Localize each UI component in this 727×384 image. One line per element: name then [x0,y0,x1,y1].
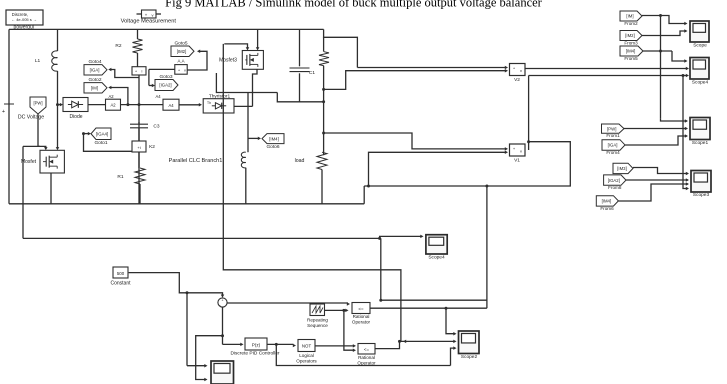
inductor L1 [35,29,58,148]
wire V1 input2 [369,151,509,186]
svg-text:L1: L1 [35,58,41,64]
wire relop1 to scope [446,308,457,335]
goto tag Goto3 [149,69,178,90]
svg-text:Rational: Rational [358,355,375,360]
goto tag Goto4 [84,59,139,78]
wire loop down [485,185,488,309]
svg-text:K2: K2 [149,144,155,150]
resistor R3 [319,29,357,67]
svg-text:Logical: Logical [299,353,314,358]
svg-text:Operators: Operators [296,359,317,364]
wire to thyristor [179,103,202,107]
wire V1 branch to scope3 [683,76,689,191]
from tag From4 [602,134,688,155]
svg-text:load: load [295,158,305,164]
from tag From5 [620,46,672,61]
svg-text:From2: From2 [624,21,638,26]
voltage measurement V1 [510,144,526,164]
from tag From1 [602,124,689,138]
wire pwm feedback [379,238,487,301]
svg-text:500: 500 [117,271,125,276]
svg-text:[PW]: [PW] [607,126,616,131]
svg-text:Mosfet3: Mosfet3 [219,57,237,63]
wire V1 to scopes [529,74,689,78]
svg-text:[IM4]: [IM4] [602,199,612,204]
svg-text:[PW]: [PW] [33,100,42,105]
svg-text:From5: From5 [624,56,638,61]
svg-text:[IM]: [IM] [626,14,633,19]
wire diode chain [121,103,164,106]
svg-text:Fig 9 MATLAB / Simulink model: Fig 9 MATLAB / Simulink model of buck mu… [165,0,543,10]
wire relop2 output [375,340,457,349]
sum junction [218,298,227,308]
svg-text:From1: From1 [606,133,620,138]
wire NOT output [315,344,356,348]
wire sum branch to scope [196,334,224,381]
svg-text:[IM4]: [IM4] [626,49,636,54]
voltage measurement block VM2 [149,58,187,74]
svg-text:← 4e-005 s →: ← 4e-005 s → [11,17,37,22]
wire to scope1 input1 [661,119,689,123]
svg-text:A4: A4 [155,94,161,99]
svg-text:[IGA]: [IGA] [90,68,100,73]
svg-text:[IGA2]: [IGA2] [608,178,620,183]
repeating sequence [307,304,328,328]
logical operator NOT [296,340,317,364]
gain A4 [155,94,179,110]
wire repseq output [325,309,349,313]
wire mosfet3 drain [256,29,260,50]
svg-text:v: v [152,13,154,18]
svg-text:A2: A2 [110,102,116,107]
svg-text:C3: C3 [153,124,159,130]
wire left bus [8,29,10,203]
svg-text:Voltage Measurement: Voltage Measurement [121,19,177,25]
diode D1 [56,98,88,120]
svg-text:Operator: Operator [357,361,376,366]
svg-text:[IM]: [IM] [91,86,98,91]
svg-text:Diode: Diode [69,114,82,120]
svg-text:Goto1: Goto1 [94,140,107,146]
svg-text:Th: Th [207,101,211,105]
from tag PW (gate) [30,97,48,150]
wire mosfet3 source [253,69,258,106]
wire top bus [9,28,324,30]
scope Scope4a [690,58,709,86]
scope Scope [690,21,709,48]
gain A2 [88,94,121,110]
svg-text:Constant: Constant [110,280,131,286]
scope Scope5 [426,235,447,261]
svg-text:Scope3: Scope3 [693,192,710,198]
from tag From7 [613,163,689,175]
wire V2 inputs [324,66,508,90]
wire switch node [216,73,323,106]
svg-text:NOT: NOT [302,344,312,349]
svg-text:[IM3]: [IM3] [617,166,627,171]
svg-text:Sequence: Sequence [307,323,328,328]
wire R3 bottom [322,66,325,155]
capacitor C3 [130,122,160,141]
svg-text:[IM4]: [IM4] [269,136,279,141]
svg-text:A.A: A.A [177,58,184,63]
from tag From8 [604,175,689,190]
svg-text:+: + [2,109,5,115]
wire PID output [267,343,296,347]
svg-text:From6: From6 [600,206,614,211]
svg-text:Scope2: Scope2 [461,354,478,360]
scope Scope3 [691,171,711,198]
resistor R2 [115,29,142,53]
wire repseq branch [344,310,356,352]
title text [165,0,543,10]
goto tag Goto5 [171,41,207,71]
mosfet Q1 [21,150,64,173]
svg-text:−: − [219,304,221,308]
svg-text:[IGA4]: [IGA4] [96,131,108,136]
svg-text:Discrete PID Controller: Discrete PID Controller [230,351,279,357]
wire V2 output [525,67,689,71]
svg-text:Scope1: Scope1 [692,140,709,146]
capacitor C1 [290,29,316,101]
scope Scope2 [459,331,480,360]
from tag From2 [620,11,688,26]
svg-text:[IM2]: [IM2] [625,33,635,38]
goto tag Goto2 [84,77,128,105]
svg-text:V2: V2 [514,77,520,83]
wire to scope5 [378,235,423,240]
svg-text:Goto4: Goto4 [88,59,101,65]
svg-text:Goto2: Goto2 [88,77,101,83]
svg-text:Scope: Scope [693,42,707,48]
wire sum bottom to PID [223,307,244,346]
svg-text:C1: C1 [309,70,315,76]
relational operator 1 [352,303,371,325]
wire ground bus [9,203,364,205]
scope Scope1 [690,118,710,146]
svg-text:Rational: Rational [353,314,370,319]
relational operator 2 [357,344,376,366]
svg-text:v: v [520,68,522,73]
svg-text:Parallel CLC Branch1: Parallel CLC Branch1 [169,158,223,164]
wire V1 loop [364,142,570,204]
svg-text:A2: A2 [108,94,114,99]
svg-text:Operator: Operator [352,320,371,325]
svg-text:[IGA]: [IGA] [608,143,618,148]
parallel CLC branch inductor [169,93,248,204]
svg-text:From3: From3 [624,40,638,45]
svg-text:From4: From4 [606,150,620,155]
wire bottom bus up [451,346,457,365]
wire V1 output [527,76,530,151]
powergui block [6,10,43,30]
wire long feedback [23,237,381,239]
scope Scope6 [211,361,234,384]
wire mosfet source [50,173,52,204]
resistor load [295,152,327,204]
svg-text:+i: +i [137,145,140,150]
wire constant to sum [129,273,225,298]
svg-text:Scope4: Scope4 [692,79,709,85]
DC voltage source [2,104,44,121]
svg-text:A4: A4 [168,103,174,108]
from tag From3 [620,29,688,45]
current measurement I1 [132,53,146,204]
wire L1 to Mosfet [56,147,60,150]
measurement block K2 [132,141,155,168]
wire mosfet3 gate [224,44,249,51]
voltage measurement block VM [121,10,177,25]
wire V1 input1 [322,132,508,151]
from tag From6 [596,182,689,211]
resistor R1 [117,168,145,204]
wire mosfet bypass [23,146,40,238]
thyristor block [203,93,234,113]
svg-text:Scope4: Scope4 [428,255,445,261]
wire from5 down [661,16,688,119]
svg-text:DC Voltage: DC Voltage [18,115,44,121]
svg-text:v: v [520,149,522,154]
svg-text:V1: V1 [514,158,520,164]
wire relop1 output [370,307,487,310]
mosfet Q3 [219,51,263,70]
svg-text:Goto3: Goto3 [159,74,172,80]
svg-text:Repeating: Repeating [307,317,328,322]
wire PID branch down [276,344,450,365]
discrete PID controller [230,338,279,357]
wire sum output [227,302,350,306]
svg-text:+: + [222,299,224,303]
svg-text:[IM2]: [IM2] [177,49,187,54]
wire PWM gate line [223,44,401,342]
svg-text:P(z): P(z) [252,343,261,348]
svg-text:i: i [142,69,143,74]
svg-text:R1: R1 [117,174,123,180]
goto tag Goto6 [248,134,284,150]
svg-text:v: v [184,69,186,73]
goto tag Goto1 [82,128,139,151]
svg-text:R2: R2 [115,43,121,49]
svg-text:From8: From8 [608,185,622,190]
svg-text:Goto6: Goto6 [266,144,279,150]
svg-text:<=: <= [364,347,370,352]
svg-text:[IGA2]: [IGA2] [159,83,171,88]
wire scope6 input1 [187,293,208,368]
constant block [110,267,131,286]
voltage measurement V2 [510,64,526,84]
svg-text:<=: <= [358,307,364,312]
